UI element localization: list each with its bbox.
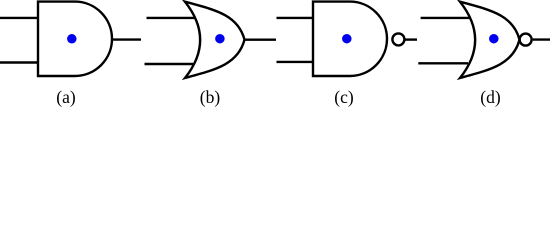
svg-text:(a): (a): [56, 87, 76, 107]
svg-text:(b): (b): [200, 87, 221, 107]
NAND gate (c) body: [313, 2, 387, 76]
wire input D1 of NOR gate (d): [421, 17, 471, 19]
wire output of NOR gate (d): [533, 38, 550, 40]
wire input B2 of OR gate (b): [145, 63, 194, 65]
wire output of OR gate (b): [245, 39, 277, 41]
node dot on NOR gate (d): [489, 34, 499, 44]
wire input C2 of NAND gate (c): [277, 61, 314, 63]
wire output of NAND gate (c): [406, 38, 418, 40]
NOR gate (d) inversion bubble: [520, 34, 532, 46]
OR gate (b) body: [185, 2, 245, 78]
NOR gate (d) body: [460, 2, 520, 78]
wire input B1 of OR gate (b): [147, 17, 197, 19]
node dot on NAND gate (c): [342, 34, 352, 44]
node dot on AND gate (a): [67, 34, 77, 44]
AND gate (a) body: [38, 2, 112, 76]
wire input C1 of NAND gate (c): [277, 17, 314, 19]
svg-text:(c): (c): [334, 87, 354, 107]
wire input A1 of AND gate (a): [0, 17, 38, 19]
wire input A2 of AND gate (a): [0, 61, 38, 63]
wire input D2 of NOR gate (d): [418, 62, 468, 64]
node dot on OR gate (b): [215, 34, 225, 44]
svg-text:(d): (d): [480, 87, 501, 107]
NAND gate (c) inversion bubble: [392, 33, 404, 45]
wire output of AND gate (a): [112, 38, 141, 40]
